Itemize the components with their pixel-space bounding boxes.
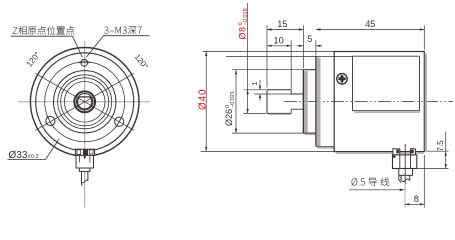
ext lines d40 body: [201, 51, 335, 151]
ext line flange front: [315, 41, 317, 56]
dim line 1: [259, 80, 261, 101]
ext line boss face: [302, 25, 304, 68]
arrows dim 5: [299, 45, 304, 47]
ext line gland bottom: [415, 168, 449, 170]
centerline horizontal: [18, 101, 150, 103]
boss top: [303, 69, 316, 71]
text d26 rotated: [224, 91, 236, 126]
arrows dim 1: [259, 86, 261, 90]
M3 hole lower-right: [115, 117, 124, 126]
gland wire centerline dark: [404, 144, 406, 184]
flange outer circle: [30, 48, 139, 157]
flange face shadow: [317, 58, 321, 147]
flange bottom shadow: [317, 147, 334, 149]
label 3-M3 depth 7: [104, 26, 141, 34]
arrows dim 8: [405, 203, 410, 205]
ext line relief for dim1: [254, 93, 292, 95]
gland main block: [393, 155, 417, 169]
cable break squiggle: [82, 180, 88, 183]
ext lines d40: [226, 56, 353, 146]
leader from 3-M3 label: [86, 36, 103, 58]
shaft chamfer circle: [76, 94, 93, 111]
svg-text:1: 1: [252, 82, 259, 86]
arrows dim 10: [267, 45, 272, 47]
svg-text:Ø8: Ø8: [237, 26, 247, 39]
cable left edge: [81, 171, 83, 181]
leader d5 wire: [349, 189, 404, 191]
flange front face: [315, 56, 317, 146]
underline d33: [8, 159, 46, 161]
ext lines d8: [244, 90, 267, 114]
side centerline: [284, 101, 453, 103]
arrowheads: [205, 28, 447, 205]
arrow leader d5: [400, 189, 405, 192]
ring circle r24: [61, 78, 109, 126]
svg-text:45: 45: [365, 19, 375, 29]
shaft shadow: [269, 113, 292, 115]
connector crimp mark: [84, 156, 87, 160]
body outline: [334, 52, 424, 152]
M3 hole top: [81, 59, 88, 66]
text d8 red: [237, 8, 249, 39]
svg-text:15: 15: [277, 19, 287, 29]
body right shadow: [425, 54, 427, 152]
arrows dim d40: [205, 51, 207, 56]
arrows dim 45: [316, 28, 321, 30]
inner rect top: [353, 55, 420, 57]
screw head: [337, 74, 347, 84]
gland centerline gray: [404, 184, 406, 208]
dim line 5 tails: [297, 45, 323, 47]
gland ear left: [393, 149, 400, 155]
shaft relief section: [291, 94, 303, 109]
shaft step verticals: [290, 90, 292, 114]
inner rect shadow: [355, 111, 420, 113]
connector slot mid: [83, 150, 87, 155]
underline 3-M3 label: [103, 35, 150, 37]
arrows dim 7.5: [445, 151, 447, 156]
body bottom shadow: [336, 152, 424, 154]
radial line 330-150: [35, 73, 134, 130]
M3 hole cross ticks: [47, 63, 123, 128]
svg-text:Ø26: Ø26: [224, 109, 234, 126]
ext line body bottom right: [427, 150, 449, 152]
arrows dim d26: [235, 70, 237, 75]
boss circle: [53, 71, 115, 133]
svg-text:Ø40: Ø40: [198, 89, 209, 110]
gland inner verticals: [400, 155, 411, 169]
cable right edge: [87, 171, 89, 180]
svg-text:−0.021: −0.021: [230, 91, 236, 108]
boss front face: [302, 70, 304, 133]
dim line 7.5: [445, 132, 447, 169]
radial line 210-30: [35, 73, 134, 130]
shaft D-flat: [78, 97, 92, 109]
dim line 8: [405, 203, 424, 205]
boss face shadow: [304, 71, 308, 133]
cable stub: [401, 175, 410, 181]
connector lower block: [79, 168, 90, 171]
ext line body right lower: [423, 155, 425, 208]
gland ear right: [411, 149, 416, 155]
svg-text:7.5: 7.5: [436, 140, 445, 152]
connector mid inner walls: [79, 155, 90, 162]
gland corner bulge: [392, 155, 395, 157]
shaft outline: [267, 90, 291, 114]
label Z phase origin: [13, 26, 74, 35]
ext line step: [290, 41, 292, 90]
dim line d40: [205, 51, 207, 151]
dim line 15: [267, 29, 303, 31]
shaft outer circle: [74, 91, 95, 112]
M3 hole lower-left: [46, 116, 55, 125]
dim line 10: [267, 45, 291, 47]
dim line 45: [316, 29, 424, 31]
dim line d8: [247, 3, 249, 113]
connector mid block: [76, 155, 94, 168]
body circle: [36, 53, 134, 151]
arrows dim d8: [246, 90, 248, 95]
cable stub break: [401, 179, 410, 182]
svg-text:5: 5: [307, 34, 312, 44]
leader d33: [46, 139, 60, 160]
connector top block: [75, 149, 94, 155]
inner recess rect: [353, 56, 420, 110]
underline Z label: [11, 35, 73, 37]
gland lower block: [399, 169, 413, 176]
ext line shaft tip: [266, 25, 268, 87]
text d5 wire: [352, 177, 389, 186]
ring circle r27: [58, 75, 112, 129]
svg-text:8: 8: [414, 194, 419, 204]
dim line d26: [235, 70, 237, 133]
boss bottom shadow: [305, 133, 316, 135]
ext line body rear top: [423, 25, 425, 49]
boss bottom: [303, 132, 316, 134]
connector slot right: [89, 150, 93, 154]
ext lines d26: [232, 70, 304, 133]
leader from Z label: [73, 36, 83, 57]
ring circle r20: [64, 82, 105, 123]
connector slot left: [77, 150, 81, 155]
svg-text:−0.018: −0.018: [243, 8, 249, 25]
arrows dim 15: [267, 28, 272, 30]
centerline vertical: [84, 41, 86, 208]
bolt circle d33: [45, 62, 125, 142]
svg-text:10: 10: [274, 35, 284, 45]
